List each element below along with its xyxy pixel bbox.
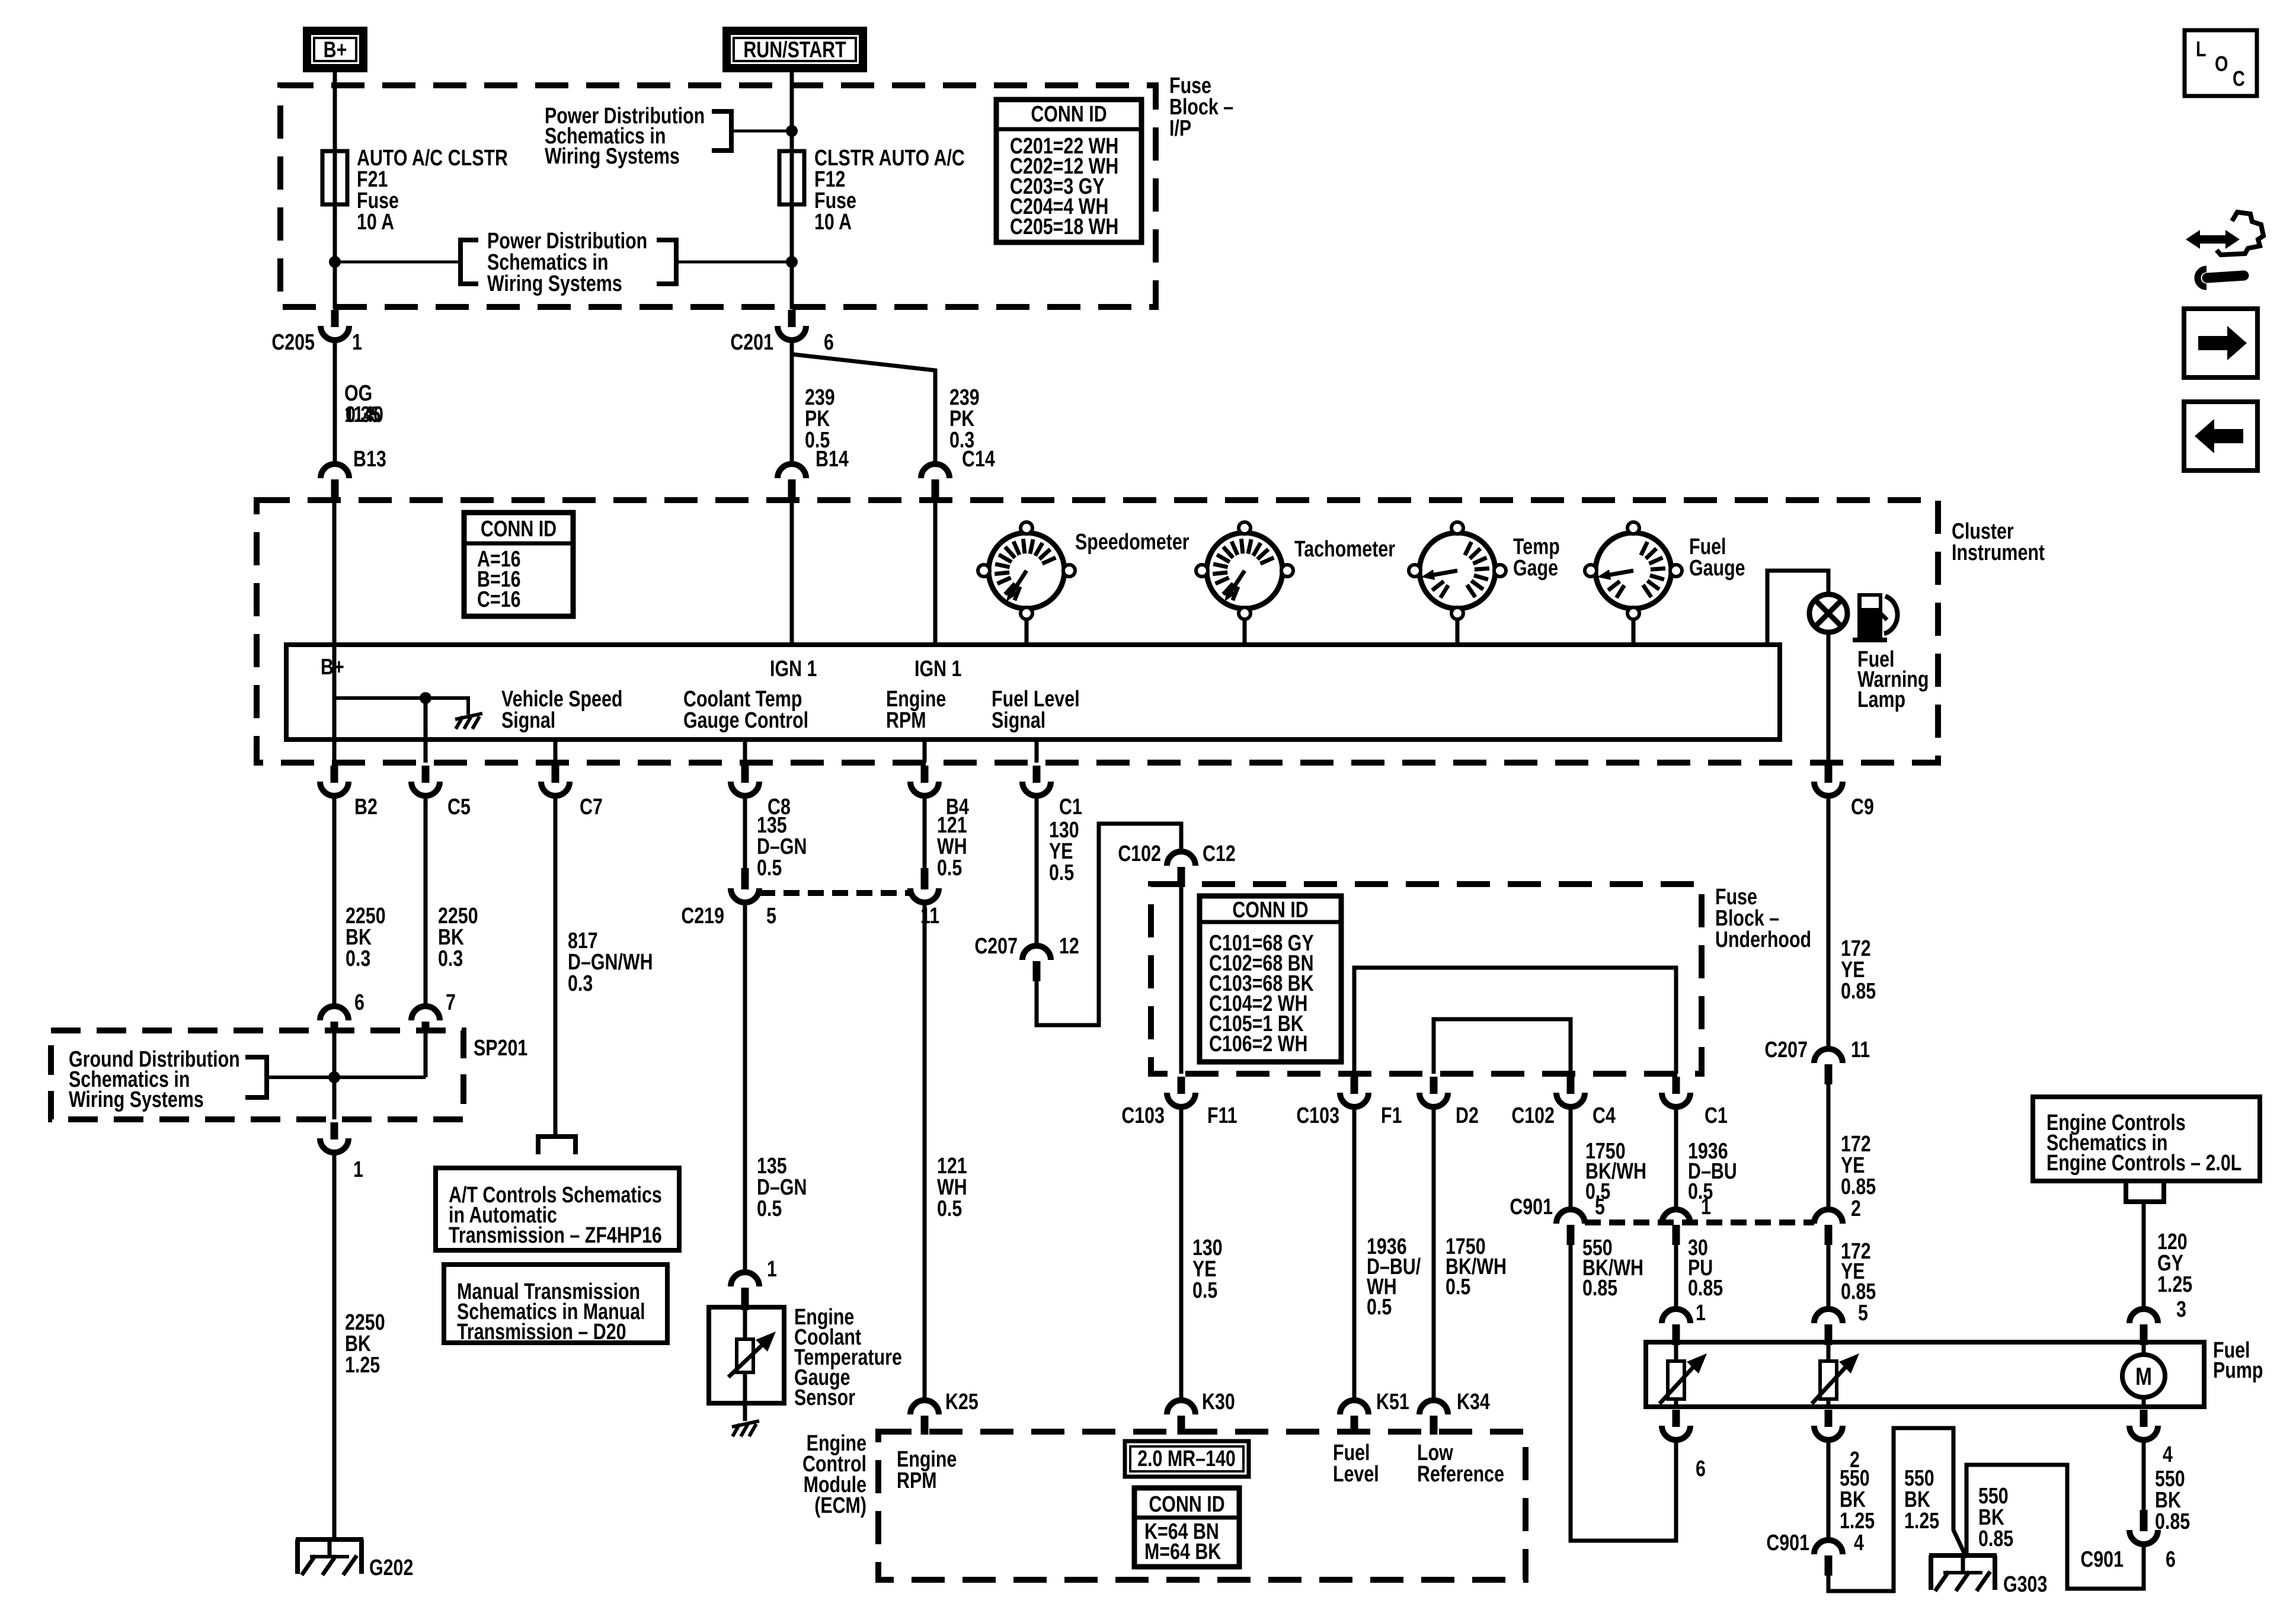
svg-text:0.3: 0.3 (438, 946, 463, 971)
svg-text:Tachometer: Tachometer (1294, 537, 1395, 562)
wire sensor to ground (743, 1403, 747, 1421)
svg-text:0.85: 0.85 (1688, 1276, 1723, 1301)
conn id table underhood (1200, 896, 1341, 1062)
chassis ground inside cluster (455, 713, 482, 719)
wire C5 with label 2250 BK 0.3 (424, 796, 428, 1006)
connector C901 pin 4 (1814, 1540, 1843, 1554)
svg-text:C901: C901 (1766, 1531, 1809, 1555)
svg-text:Wiring Systems: Wiring Systems (69, 1087, 204, 1112)
svg-text:Transmission – D20: Transmission – D20 (457, 1320, 626, 1345)
fuel pump sender resistor 1 (1674, 1342, 1678, 1407)
svg-text:C106=2 WH: C106=2 WH (1209, 1032, 1307, 1057)
svg-text:0.5: 0.5 (1367, 1295, 1392, 1320)
connector C103 / F11 (1178, 1077, 1185, 1094)
wire C8 with label 135 D-GN 0.5 (743, 796, 747, 868)
svg-text:M: M (2135, 1363, 2152, 1391)
svg-text:0.85: 0.85 (1978, 1526, 2013, 1551)
svg-text:0.5: 0.5 (937, 1196, 962, 1221)
connector C219 pin 5 (741, 868, 749, 889)
svg-text:RPM: RPM (897, 1468, 937, 1493)
wire fuel warning lamp feed (1767, 571, 1828, 645)
connector C201 pin 6 (788, 310, 796, 327)
connector C8 (741, 766, 749, 783)
connector C901 pin 5 (1556, 1209, 1585, 1224)
conn id table cluster (464, 513, 573, 616)
gauge speedometer (1025, 616, 1029, 645)
svg-text:6: 6 (2166, 1547, 2176, 1572)
connector fuel pump pin 2 (1825, 1410, 1833, 1427)
svg-text:10 A: 10 A (357, 210, 394, 235)
ground G202 (296, 1537, 363, 1542)
engine control module dashed box (878, 1432, 1526, 1580)
connector C102 / C12 (1167, 852, 1195, 866)
wire splice SP201 (267, 1076, 426, 1079)
wire IGN1 C14 stub (933, 502, 938, 645)
wire B4 with label 121 WH 0.5 (923, 796, 927, 868)
wire C901-4 to ground G303 with label 550 BK 1.25 (1828, 1428, 1966, 1591)
wire B2 with label 2250 BK 0.3 (332, 796, 337, 1006)
wire C8 lower with label 135 D-GN 0.5 (743, 902, 747, 1272)
svg-text:CONN ID: CONN ID (1232, 898, 1308, 923)
svg-text:O: O (2215, 52, 2228, 76)
wire B13 feed inside cluster (332, 502, 337, 763)
wire C5 drop (424, 698, 428, 763)
connector C102 / C4 (1567, 1077, 1575, 1094)
bracket ground distribution (245, 1057, 267, 1097)
wire internal branch to ground (334, 698, 468, 715)
wire RUN/START to fuse F12 (790, 72, 794, 309)
fuel warning lamp (1809, 594, 1847, 632)
wire C205 to B13 with label OG 1140 0.35 (333, 341, 337, 464)
svg-text:Gauge: Gauge (1689, 556, 1745, 581)
connector B4 (921, 766, 929, 783)
svg-text:7: 7 (446, 990, 456, 1015)
svg-text:C7: C7 (580, 795, 603, 820)
wire F11 to K30 with label 130 YE 0.5 (1179, 1107, 1184, 1400)
cluster main bar (286, 645, 1780, 740)
wire B+ to fuse F21 (333, 72, 337, 309)
svg-text:CONN ID: CONN ID (1031, 102, 1107, 127)
svg-text:C1: C1 (1705, 1103, 1728, 1128)
svg-text:0.5: 0.5 (1049, 860, 1074, 885)
svg-text:C201: C201 (730, 330, 773, 355)
wire F1 to K51 with label 1936 D-BU/WH 0.5 (1352, 1107, 1357, 1400)
svg-text:C12: C12 (1203, 841, 1236, 866)
svg-text:Lamp: Lamp (1857, 687, 1905, 712)
svg-text:C205=18 WH: C205=18 WH (1010, 215, 1118, 239)
reference box 2.0 MR-140 (1125, 1441, 1249, 1477)
svg-text:B+: B+ (321, 655, 344, 680)
fuse F21 (322, 151, 347, 204)
wire cluster pin stub x1560 (923, 740, 927, 763)
wire pin 2 to C901-4 with label 550 BK 1.25 (1827, 1440, 1831, 1540)
svg-text:1.25: 1.25 (1904, 1509, 1939, 1534)
connector fuel pump pin 4 (2140, 1410, 2148, 1427)
svg-text:0.85: 0.85 (1841, 1174, 1876, 1199)
svg-text:6: 6 (824, 330, 834, 355)
wire C201 to B14 (790, 341, 794, 464)
svg-text:B14: B14 (816, 447, 849, 472)
inline connector C219 dashed link (759, 890, 910, 896)
reference box engine controls (2033, 1097, 2260, 1181)
vehicle and wrench icon (2186, 230, 2240, 249)
svg-text:0.3: 0.3 (346, 946, 370, 971)
bracket to A/T schematics (538, 1137, 575, 1154)
svg-text:(ECM): (ECM) (814, 1493, 866, 1518)
connector C207 pin 12 (1022, 946, 1051, 960)
fuse block I/P dashed box (280, 85, 1156, 307)
LOC box (2185, 30, 2257, 96)
svg-text:I/P: I/P (1169, 116, 1191, 141)
svg-text:C4: C4 (1593, 1103, 1616, 1128)
connector C14 (921, 464, 949, 478)
svg-text:Sensor: Sensor (794, 1385, 855, 1410)
svg-text:G202: G202 (369, 1555, 413, 1580)
connector C1 underhood (1673, 1077, 1680, 1094)
svg-text:B+: B+ (324, 37, 347, 62)
connector C205 pin 1 (331, 310, 339, 327)
wire with label 172 YE 0.85 second (1827, 1084, 1831, 1209)
connector B13 (321, 464, 349, 478)
wire C4 with label 1750 BK/WH 0.5 (1569, 1107, 1573, 1209)
engine coolant temperature gauge sensor (709, 1307, 784, 1403)
wire pin 4 to C901-6 with label 550 BK 0.85 (2142, 1440, 2146, 1510)
svg-text:Instrument: Instrument (1952, 540, 2045, 565)
conn id table I/P (996, 100, 1141, 242)
wire D2 to C4 inside fuse block (1434, 1019, 1571, 1074)
svg-text:0.85: 0.85 (1582, 1276, 1617, 1301)
svg-text:10 A: 10 A (814, 210, 852, 235)
wire C12 to F11 inside fuse block (1179, 886, 1184, 1074)
svg-text:C9: C9 (1851, 795, 1874, 820)
svg-text:Gauge Control: Gauge Control (683, 708, 808, 733)
svg-text:K30: K30 (1202, 1390, 1235, 1414)
fuel pump sender resistor 2 (1827, 1342, 1831, 1407)
svg-text:RUN/START: RUN/START (743, 37, 846, 62)
svg-text:C205: C205 (271, 330, 315, 355)
gauge temp gage (1456, 616, 1460, 645)
connector C901 pin 1 (1662, 1209, 1690, 1224)
wire cluster pin stub x1257 (743, 740, 747, 763)
svg-text:Reference: Reference (1417, 1462, 1504, 1487)
svg-text:C901: C901 (2080, 1547, 2124, 1572)
wire C901-5 to pump pin 6 with label 550 BK/WH 0.85 (1571, 1245, 1676, 1541)
svg-text:1.25: 1.25 (2157, 1272, 2192, 1297)
svg-text:K34: K34 (1457, 1390, 1490, 1414)
svg-text:L: L (2196, 37, 2207, 61)
svg-text:K25: K25 (945, 1390, 978, 1414)
connector C219 pin 11 (921, 868, 929, 889)
previous page arrow box (2184, 402, 2257, 470)
wire C1 underhood with label 1936 D-BU 0.5 (1674, 1107, 1678, 1209)
wire C207-12 to C102 (1037, 824, 1181, 1025)
svg-text:Signal: Signal (992, 708, 1045, 733)
junction on F21 wire (329, 256, 341, 268)
fuel pump motor M (2142, 1342, 2146, 1407)
wire C1 with label 130 YE 0.5 (1035, 796, 1039, 946)
junction C5 branch (420, 692, 431, 704)
svg-text:Wiring Systems: Wiring Systems (487, 271, 622, 296)
svg-text:0.3: 0.3 (568, 971, 593, 996)
wire IGN1 B14 stub (790, 502, 794, 645)
svg-text:Level: Level (1333, 1462, 1379, 1487)
svg-text:Engine Controls – 2.0L: Engine Controls – 2.0L (2046, 1151, 2241, 1176)
connector C207 pin 11 (1814, 1049, 1843, 1063)
svg-text:0.5: 0.5 (1192, 1278, 1217, 1303)
svg-text:4: 4 (2163, 1442, 2173, 1467)
svg-text:RPM: RPM (886, 708, 926, 733)
wire C901-6 to ground G303 with label 550 BK 0.85 (1966, 1465, 2144, 1589)
svg-text:0.5: 0.5 (1446, 1275, 1470, 1299)
power node B+ (303, 27, 367, 72)
svg-text:C103: C103 (1121, 1103, 1165, 1128)
wire to G202 with label 2250 BK 1.25 (332, 1153, 337, 1539)
bracket upper (712, 111, 731, 151)
svg-text:C102: C102 (1118, 841, 1161, 866)
svg-text:11: 11 (1851, 1038, 1870, 1062)
conn id table ecm (1134, 1488, 1239, 1567)
svg-text:1.25: 1.25 (1840, 1509, 1875, 1534)
connector fuel pump pin 3 (2129, 1309, 2158, 1323)
fuel pump box (1646, 1342, 2204, 1407)
wire F21 wire to bracket (335, 261, 461, 264)
ground G303 (1929, 1553, 1997, 1558)
svg-text:C14: C14 (962, 447, 995, 472)
connector C9 (1825, 766, 1833, 783)
svg-text:G303: G303 (2003, 1572, 2047, 1597)
svg-text:2: 2 (1851, 1196, 1861, 1221)
svg-text:3: 3 (2176, 1297, 2186, 1322)
svg-text:0.5: 0.5 (757, 1196, 782, 1221)
wire C9 with label 172 YE 0.85 (1827, 796, 1831, 1049)
svg-text:12: 12 (1059, 934, 1079, 959)
svg-text:C207: C207 (974, 934, 1018, 959)
gauge tachometer (1243, 616, 1247, 645)
bracket engine controls (2126, 1183, 2164, 1202)
svg-text:Wiring Systems: Wiring Systems (545, 144, 680, 169)
svg-text:B2: B2 (354, 795, 378, 820)
junction lower on F12 wire (786, 256, 798, 268)
cluster instrument dashed box (257, 500, 1938, 763)
svg-text:C: C (2233, 66, 2245, 91)
svg-text:F1: F1 (1381, 1103, 1402, 1128)
svg-text:6: 6 (1696, 1457, 1706, 1481)
svg-text:D2: D2 (1456, 1103, 1479, 1128)
svg-text:0.85: 0.85 (1841, 979, 1876, 1004)
connector C1 (1033, 766, 1041, 783)
svg-text:5: 5 (1595, 1195, 1605, 1219)
svg-text:C207: C207 (1764, 1038, 1808, 1062)
svg-text:4: 4 (1854, 1531, 1864, 1555)
splice SP201 dashed box (51, 1030, 463, 1119)
wire with label 172 YE 0.85 third (1827, 1245, 1831, 1309)
svg-text:1: 1 (353, 1157, 363, 1182)
svg-text:Signal: Signal (501, 708, 555, 733)
svg-text:C219: C219 (681, 904, 724, 929)
wire bracket to F12 wire lower (676, 261, 792, 264)
svg-text:C102: C102 (1511, 1103, 1555, 1128)
reference box A/T controls (436, 1168, 679, 1250)
svg-text:Speedometer: Speedometer (1075, 530, 1189, 555)
connector C901 pin 2 (1814, 1209, 1843, 1224)
wire to pump pin 3 with label 120 GY 1.25 (2142, 1202, 2146, 1309)
connector C7 (552, 766, 559, 783)
wire branch C201 to C14 (793, 354, 935, 464)
svg-text:5: 5 (766, 904, 776, 929)
svg-text:Underhood: Underhood (1715, 927, 1811, 952)
connector coolant sensor pin 1 (731, 1272, 759, 1286)
svg-text:5: 5 (1858, 1301, 1868, 1326)
connector K51 (1340, 1400, 1368, 1414)
svg-text:Transmission – ZF4HP16: Transmission – ZF4HP16 (449, 1223, 662, 1248)
wire bracket to F12 wire (731, 130, 792, 133)
svg-text:1: 1 (352, 330, 362, 355)
fuel pump icon (1857, 593, 1882, 638)
wire B4 lower with label 121 WH 0.5 (923, 902, 927, 1400)
connector fuel pump pin 1 (1662, 1309, 1690, 1323)
junction upper (786, 125, 798, 137)
svg-text:0.5: 0.5 (757, 856, 782, 881)
connector SP201 pin 7 (411, 1006, 440, 1020)
connector K25 (910, 1400, 939, 1414)
wire lamp to C9 (1827, 631, 1831, 763)
svg-text:IGN 1: IGN 1 (770, 657, 817, 681)
svg-text:C=16: C=16 (477, 587, 521, 612)
connector B2 (331, 766, 338, 783)
inline connector C901 dashed link (1585, 1219, 1814, 1225)
wire cluster pin stub x937 (554, 740, 558, 763)
wire cluster pin stub x1749 (1035, 740, 1039, 763)
svg-text:IGN 1: IGN 1 (914, 657, 961, 681)
wire C901-1 to pump pin 1 with label 30 PU 0.85 (1674, 1245, 1678, 1309)
fuse block underhood dashed box (1151, 884, 1702, 1074)
svg-text:Gage: Gage (1513, 556, 1558, 581)
wire C7 with label 817 D-GN/WH 0.3 (554, 796, 558, 1137)
svg-text:CONN ID: CONN ID (481, 517, 557, 542)
connector C901 pin 6 (2140, 1510, 2148, 1531)
connector C5 (422, 766, 430, 783)
junction SP201 (328, 1071, 340, 1083)
connector D2 (1430, 1077, 1438, 1094)
svg-text:0.5: 0.5 (937, 856, 962, 881)
power node RUN/START (722, 27, 867, 72)
next page arrow box (2184, 309, 2257, 377)
connector fuel pump pin 5 (1814, 1309, 1843, 1323)
gauge fuel gauge (1632, 616, 1636, 645)
connector SP201 pin 6 (320, 1006, 348, 1020)
reference box manual transmission (444, 1265, 667, 1343)
svg-text:2.0 MR–140: 2.0 MR–140 (1137, 1446, 1236, 1471)
chassis ground sensor (732, 1421, 759, 1427)
svg-text:C1: C1 (1059, 795, 1082, 820)
svg-text:B13: B13 (353, 447, 386, 472)
bracket lower-left (461, 240, 478, 284)
svg-text:CONN ID: CONN ID (1149, 1492, 1224, 1517)
svg-text:SP201: SP201 (474, 1036, 527, 1061)
connector C103 / F1 (1351, 1077, 1358, 1094)
svg-text:C103: C103 (1296, 1103, 1339, 1128)
svg-text:C901: C901 (1510, 1195, 1553, 1219)
svg-text:C5: C5 (447, 795, 471, 820)
svg-text:1.25: 1.25 (345, 1353, 380, 1378)
connector K34 (1419, 1400, 1448, 1414)
connector B14 (778, 464, 806, 478)
svg-text:K51: K51 (1376, 1390, 1409, 1414)
bracket lower-right (657, 240, 676, 284)
connector SP201 pin 1 (331, 1122, 338, 1140)
svg-text:1: 1 (767, 1257, 777, 1282)
svg-text:6: 6 (354, 990, 364, 1015)
wire D2 to K34 with label 1750 BK/WH 0.5 (1432, 1107, 1436, 1400)
svg-text:1: 1 (1696, 1301, 1706, 1326)
connector K30 (1167, 1400, 1195, 1414)
fuse F12 (779, 151, 804, 204)
svg-text:1: 1 (1701, 1195, 1711, 1219)
svg-text:F11: F11 (1207, 1103, 1237, 1128)
connector fuel pump pin 6 (1673, 1410, 1680, 1427)
svg-text:Pump: Pump (2213, 1358, 2263, 1383)
svg-text:0.35: 0.35 (346, 402, 380, 427)
svg-text:M=64 BK: M=64 BK (1144, 1539, 1221, 1564)
wire F1 to C1 inside fuse block (1354, 968, 1676, 1074)
